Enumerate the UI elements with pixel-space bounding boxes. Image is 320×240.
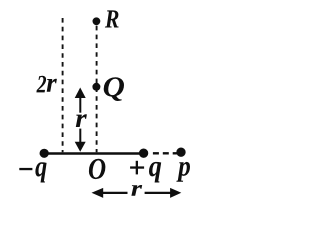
- minus sign of -q: [19, 168, 32, 170]
- label r (vertical arrow): [76, 114, 87, 127]
- label Q: [104, 77, 124, 101]
- horizontal arrow right shaft: [145, 192, 171, 194]
- label 2r: letter r: [47, 79, 57, 92]
- point p dot: [176, 148, 185, 157]
- vertical arrow lower shaft: [79, 129, 81, 143]
- label q of +q: [149, 162, 161, 183]
- point Q dot: [92, 83, 100, 91]
- vertical arrow upper shaft: [79, 97, 81, 113]
- vertical distance arrow: up arrowhead at Q level: [75, 88, 86, 99]
- label O (origin): [89, 159, 105, 179]
- charge +q dot: [139, 149, 148, 158]
- label 2r: digit 2: [36, 76, 46, 93]
- plus sign of +q: vertical bar: [136, 161, 138, 175]
- charge -q dot: [40, 149, 49, 158]
- label r (horizontal arrow): [131, 185, 142, 196]
- label R: [105, 10, 119, 27]
- vertical arrow down arrowhead at axis: [75, 142, 86, 152]
- point R dot: [93, 17, 101, 25]
- horizontal arrow right arrowhead: [170, 188, 181, 198]
- plus sign of +q: horizontal bar: [130, 166, 144, 168]
- axis line from -q to +q: [40, 152, 144, 155]
- dashed axis extension from +q to p: [153, 152, 179, 154]
- horizontal arrow left shaft: [102, 192, 128, 194]
- dashed guide line from O up through Q to R (right vertical): [96, 26, 98, 153]
- horizontal distance arrow below axis: left arrowhead: [92, 188, 104, 198]
- label p: [176, 162, 190, 182]
- dashed guide line for height 2r (left vertical): [62, 18, 64, 152]
- label q of -q: [35, 162, 46, 182]
